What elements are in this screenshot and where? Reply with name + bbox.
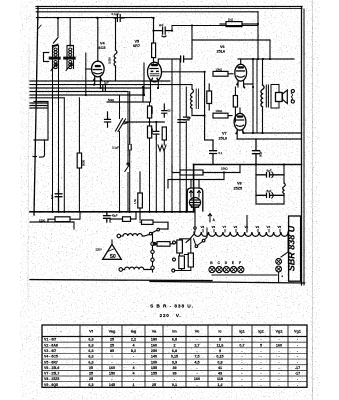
top border line inner [36,8,302,10]
tube V4 pin right [99,76,101,88]
tube V6 cathode [237,76,244,77]
right border inner [303,9,305,285]
resistor mid top [152,43,156,58]
node coil tops [54,44,56,46]
capacitor 8uF upper [256,173,284,177]
tube V5 anode bar [151,64,158,66]
wire to V7 grid [228,115,232,117]
resistor 10k grid V7 [213,113,228,118]
right border outer [301,7,303,286]
table body text [44,338,300,387]
wire 1k to rail [220,23,258,25]
left border [34,7,38,216]
capacitor x156 [153,122,159,139]
IF T1 core bar [49,57,61,60]
wire resistor1500 ends [48,212,80,222]
heater chain scallops [194,232,288,236]
AVC bus line 2 [30,84,192,86]
pilot lamp B [209,267,215,273]
electrolytic 50uF [253,139,260,165]
node at x153 [152,17,154,19]
corner lamp lead [278,272,280,282]
wire coil L2 down [58,69,60,212]
tube V7 grid dashes [236,119,244,121]
tube V6 bottom pins [238,80,253,87]
tube V6 anode bar [237,66,244,68]
pilot lamp F [238,267,244,273]
mains coil lower [119,268,123,272]
ballast resistor c [188,253,193,267]
heater mid tap [246,216,248,233]
capacitor on x186 [184,117,190,120]
filter right leg with choke [283,165,285,184]
tube V7 envelope [234,113,246,130]
mains triangle 50 [103,244,122,259]
capacitor 45uF [104,212,111,222]
tube V5 pin bottom right [157,81,159,88]
node top-left [57,17,59,19]
wire drop to band switch [57,18,59,36]
ballast wiring [175,239,191,271]
speaker magnet [276,93,283,102]
resistor 50k vertical [148,106,152,118]
tube V4 grid feed [86,68,92,70]
IF transformer T2 frame [67,46,74,69]
current arrow A [208,214,211,223]
bottom long line right [150,281,305,283]
output top rail y59 [238,58,294,60]
tube V4 filament hooks [94,78,102,80]
chassis bus thick [30,211,194,213]
tube V6 grid dashes [237,70,245,72]
pilot lamp E [231,267,237,273]
tube V4 grid dashes [93,69,101,71]
tube V7 anode bar [237,115,244,117]
screen rail x257 [256,59,258,133]
resistor 10k grid V6 [213,71,228,76]
resistor 1M vertical [148,126,152,138]
wire y179.5 [168,165,240,189]
heater switch blade [186,234,195,243]
band switch blade [54,38,59,48]
AVC bus line 6 [30,97,64,99]
tube V4 top cap wire [97,18,99,61]
corner lamp upper [276,259,282,265]
node x144 [143,94,145,96]
transformer core [266,85,268,107]
zigzag element [158,145,166,151]
tube V4 envelope [92,61,105,77]
selector resistor horizontal [153,242,156,245]
hook wire bottom left [33,140,45,157]
tube V4 cathode [94,73,102,74]
resistor 50k anode vertical [207,91,212,104]
corner lamp lower [276,266,282,272]
wire resistor to tube V5 top [153,58,155,63]
tube V5 filament hooks [151,78,158,80]
tube V6 envelope [235,64,247,81]
heater chain ticks [203,230,280,233]
tube V4 anode bar [95,65,101,67]
wire y40 to right corner [192,40,270,59]
resistor 1k top right [226,22,242,27]
potentiometer diagonal [116,119,128,132]
AVC bus line 1 [30,80,170,82]
vertical x172 full [171,60,173,212]
page fold shadow [28,45,29,300]
wire x64.3 top [63,98,65,212]
wire top rail y12 [36,11,258,13]
data table frame [42,325,307,387]
wire coils to top rail [69,18,71,46]
cathode resistor V6 [233,96,237,108]
bus inline cap [103,85,106,91]
wire coil L1 down [52,69,54,212]
tube V8 stem [194,208,196,227]
IF T2 core bar [63,57,75,60]
capacitor 1uF [178,120,185,123]
vertical x129.7 to chassis [129,92,131,212]
transformer secondary loop [271,85,279,109]
nameplate box SBR 838 U [289,216,301,281]
wire y25.5 rail [172,26,258,31]
filter left leg [256,165,284,205]
stub line y108 [30,107,48,109]
wire x79.4 [78,98,80,212]
capacitor mid small [162,104,167,117]
AVC bus line 3 [30,87,150,89]
output transformer primary [262,59,264,85]
stub line y105.5 [30,105,48,107]
choke coil interstage [191,85,193,89]
ballast resistor b [179,256,185,269]
speaker terminals [291,89,294,92]
screen rail x253 [252,59,254,133]
capacitor 0,1uF inline top [114,15,124,22]
tube V6 top pin [240,59,242,64]
vertical x120 to chassis [119,95,121,212]
resistor 5000 vertical left [77,153,81,168]
capacitor 0,1uF lower [128,138,131,154]
vertical x156.3 to chassis [155,139,157,212]
rail x258 from top [257,12,259,59]
capacitor 0,1uF coupling [181,56,184,62]
tube V5 inner cage [150,74,159,76]
coupling cap cluster 2uF [154,18,173,43]
IF T1 coil loops lower [54,61,57,69]
vertical x164.3 to chassis [163,140,165,212]
wire y122 [124,121,164,123]
tube V5 diode plates [151,71,154,73]
IF T2 coil loops lower [69,61,72,69]
B+ riser thick [193,165,195,212]
resistor small right of cap [123,217,131,222]
tube V5 pin bottom left [150,81,152,102]
node y102 [142,86,144,88]
resistor 1500 [55,217,70,222]
tube V5 (6R7) envelope [148,62,162,82]
AVC bus line 4 [30,91,128,93]
bottom long line left [30,280,212,281]
electrolytic cathode cap [55,190,62,212]
IF T1 trimmer arrow [51,64,57,71]
wire y133 [237,133,302,139]
voltage selector column [152,233,154,272]
heater chain right drop [281,232,288,257]
IF T2 trimmer arrow [66,64,72,71]
tube V8 pins top [191,180,199,189]
chassis risers nodes [51,211,53,213]
resistor x164 vertical [162,127,166,140]
IF T1 coil loops upper [54,48,57,56]
grid return wire x144 [143,63,145,95]
ballast resistor a [177,240,183,253]
coupling cap to B+ [210,140,217,165]
capacitor left vertical [105,112,111,127]
top border line outer [36,6,302,8]
vertical x186 with cap [185,87,187,212]
tube V5 grid dashes [150,68,158,70]
back-bias line y222 [30,222,74,229]
vertical x180 full [179,60,181,212]
AVC bus line 5 [30,94,144,96]
IF transformer T1 frame [53,46,59,69]
corner tick mark [39,25,42,28]
tube V7 top pin [239,108,241,113]
stub line y103 [30,102,48,104]
oscillator coil 0,050 [115,18,117,50]
tube V7 bottom pins [237,129,243,139]
wire to resistor small [110,212,136,222]
tube V8 filament arrows [190,191,201,198]
capacitor 8uF lower [256,193,284,197]
speaker cone [283,90,288,104]
wire x143 drop [142,87,144,102]
grid feed wire x85.8 [85,53,87,95]
wire switch to coil1 [56,44,59,46]
rectifier feed resistor 15k [180,170,203,175]
mains switch upper [149,232,152,235]
link bracket left of coils [44,53,49,62]
vertical x149.5 to chassis [149,102,151,212]
wire cap to riser [184,26,192,60]
resistor 1,5k vertical x140 [138,193,143,208]
mains switch lower right [195,245,198,248]
anode wire V5 to grid resistor row [163,72,205,116]
tube V5 top pin to coupling [158,59,180,63]
node above V4 [96,17,98,19]
tube V8 base ellipse hatched [189,198,200,208]
node V4 pins [93,84,95,86]
pilot lamp row wire [212,274,277,276]
resistor below chassis [142,220,154,224]
tube V4 pin left [94,76,96,84]
tube V7 filament hooks [236,131,244,133]
page scan edge [312,0,314,400]
pilot lamp D [223,267,229,273]
mains coil upper [117,234,121,238]
oscillator shield box [34,102,48,141]
tube V6 filament hooks [237,83,245,88]
pilot lamp C [216,267,222,273]
tube V7 cathode [236,125,243,126]
wire top rail y18 [37,17,154,19]
B+ rail thick [194,164,302,166]
wire 10k to V6 [228,73,233,75]
tube V8 25Z5 outline [187,188,203,211]
switch on x128 [125,92,130,212]
IF T2 coil loops upper [69,48,72,56]
triangle stem [111,240,113,244]
wire below chassis [140,222,168,229]
mid-left network: wire y102 [107,101,150,103]
table header text [60,329,301,333]
